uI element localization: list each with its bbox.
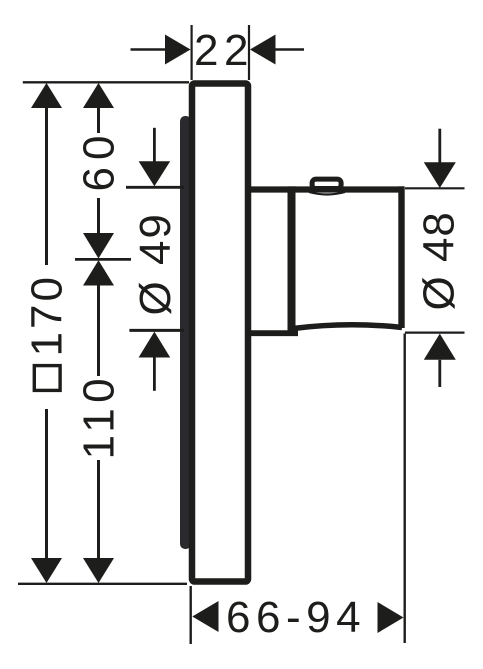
handle left edge / sleeve junction bbox=[288, 186, 296, 333]
svg-text:110: 110 bbox=[75, 373, 124, 460]
sleeve bottom line bbox=[248, 330, 298, 336]
svg-text:170: 170 bbox=[23, 274, 72, 356]
centerline tick (60/110 boundary) bbox=[75, 258, 131, 261]
dimension 60 label bbox=[75, 129, 124, 192]
dimension dia-49 label bbox=[131, 212, 180, 315]
dimension square-170 label bbox=[23, 274, 72, 390]
dimension dia-49 bottom tick bbox=[129, 329, 184, 332]
dimension dia-49 lower arrow bbox=[139, 332, 171, 391]
dimension dia-49 upper arrow bbox=[139, 128, 171, 187]
svg-text:22: 22 bbox=[194, 26, 254, 75]
sleeve top / handle top line bbox=[248, 186, 404, 192]
dimension 22 left extension line bbox=[191, 25, 193, 80]
svg-text:Ø 49: Ø 49 bbox=[131, 212, 180, 315]
dimension dia-48 lower arrow bbox=[424, 334, 456, 387]
svg-text:66-94: 66-94 bbox=[226, 593, 366, 642]
dimension 66-94 right arrow bbox=[378, 602, 404, 633]
dimension 66-94 left extension line bbox=[189, 586, 191, 644]
svg-text:Ø 48: Ø 48 bbox=[415, 211, 464, 310]
dimension 60 lower arrow bbox=[83, 198, 114, 259]
dimension 22 right arrow bbox=[250, 35, 304, 65]
escutcheon plate (side view) bbox=[192, 84, 248, 582]
dimension 22 label bbox=[194, 26, 254, 75]
dimension 110 lower arrow bbox=[83, 460, 114, 583]
dimension dia-48 bottom extension bbox=[405, 332, 465, 334]
dimension dia-49 top tick bbox=[126, 186, 184, 189]
concealed valve body (bar behind plate) bbox=[180, 116, 191, 549]
top extension line (y 82) bbox=[23, 81, 189, 83]
dimension square-170 lower arrow bbox=[31, 409, 62, 583]
temperature marker tab on handle bbox=[312, 179, 341, 188]
dimension 66-94 left arrow bbox=[192, 601, 218, 632]
dimension 66-94 right extension line bbox=[404, 334, 406, 644]
handle bottom edge (slight arc) bbox=[293, 325, 402, 329]
dimension 22 right extension line bbox=[248, 25, 250, 80]
dimension 66-94 label bbox=[226, 593, 366, 642]
dimension dia-48 upper arrow bbox=[424, 129, 456, 188]
dimension 60 upper arrow bbox=[83, 83, 114, 133]
dimension square-170 upper arrow bbox=[31, 83, 62, 265]
svg-text:60: 60 bbox=[75, 129, 124, 192]
bottom extension line (y 584) bbox=[18, 583, 187, 585]
dimension dia-48 top extension bbox=[405, 187, 465, 189]
dimension 110 label bbox=[75, 373, 124, 460]
dimension 110 upper arrow bbox=[83, 260, 114, 376]
dimension 22 left arrow bbox=[131, 35, 191, 65]
handle right edge bbox=[398, 186, 404, 328]
dimension dia-48 label bbox=[415, 211, 464, 310]
arc under top line below tab bbox=[309, 192, 345, 195]
